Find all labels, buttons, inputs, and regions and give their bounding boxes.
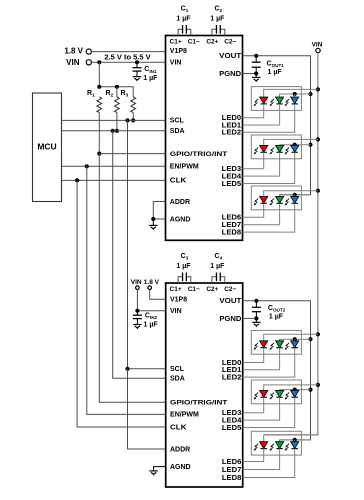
junction SCL/U2 ADDR	[125, 367, 129, 371]
LED module box3	[251, 186, 301, 210]
junction EN branch	[85, 164, 89, 168]
LED module box6	[251, 431, 301, 455]
wire blue cathode box6 to IC	[243, 449, 295, 478]
svg-text:2.5 V to 5.5 V: 2.5 V to 5.5 V	[104, 53, 150, 62]
ground CIN1	[133, 77, 141, 82]
capacitor C2	[210, 6, 225, 36]
wire green/blue anode rail box6	[280, 440, 311, 442]
wire red cathode box2 to IC	[243, 152, 264, 168]
LED red box4	[254, 341, 268, 350]
svg-text:VOUT: VOUT	[219, 298, 242, 305]
LED module box1	[251, 87, 301, 111]
wire green cathode box6 to IC	[243, 449, 280, 470]
wire pullup rail	[99, 62, 133, 97]
wire EN/PWM MCU to U1	[62, 165, 166, 167]
svg-text:PGND: PGND	[219, 71, 241, 78]
wire GPIO bus to U2	[99, 154, 165, 403]
svg-text:LED7: LED7	[222, 467, 242, 474]
svg-text:LED6: LED6	[222, 215, 242, 222]
LED driver IC U2	[166, 283, 243, 487]
svg-text:LED5: LED5	[222, 425, 242, 432]
resistor R3	[121, 90, 136, 113]
wire VIN to CIN1	[136, 62, 138, 67]
wire VIN to CIN2	[136, 311, 138, 316]
junction VIN rail box1	[316, 87, 320, 91]
wire blue cathode box1 to IC	[243, 104, 295, 132]
svg-text:VIN: VIN	[170, 308, 182, 315]
junction rail R2	[115, 85, 119, 89]
svg-text:1 µF: 1 µF	[144, 322, 159, 329]
svg-text:AGND: AGND	[170, 216, 191, 223]
wire VIN to U2 VIN	[137, 290, 165, 311]
svg-text:LED2: LED2	[222, 375, 242, 382]
capacitor C1	[176, 6, 191, 36]
svg-text:LED4: LED4	[222, 174, 242, 181]
LED blue box3	[285, 196, 299, 205]
wire R1 to GPIO	[98, 113, 100, 154]
svg-text:VIN: VIN	[66, 58, 80, 67]
wire EN bus to U2	[87, 166, 166, 414]
wire blue cathode box4 to IC	[243, 348, 295, 377]
wire SDA MCU to U1	[62, 130, 166, 132]
svg-text:LED7: LED7	[222, 222, 242, 229]
wire blue anode box4	[294, 339, 296, 341]
wire CLK bus to U2	[77, 180, 166, 427]
svg-text:LED3: LED3	[222, 166, 242, 173]
wire green/blue anode rail box2	[280, 144, 311, 147]
wire blue cathode box3 to IC	[243, 203, 295, 232]
capacitor COUT2	[252, 301, 286, 321]
svg-text:SCL: SCL	[170, 366, 185, 373]
junction VOUT rail box5	[308, 388, 312, 392]
wire GPIO to U1	[99, 153, 165, 155]
svg-text:1 µF: 1 µF	[176, 263, 191, 270]
svg-text:C1+: C1+	[170, 39, 182, 46]
svg-text:LED0: LED0	[222, 360, 242, 367]
wire U2 AGND to ground	[154, 467, 166, 471]
junction R3/SCL	[131, 118, 135, 122]
junction blue anode box2	[293, 143, 297, 147]
svg-text:V1P8: V1P8	[170, 48, 187, 55]
node VIN terminal U2	[131, 279, 142, 290]
wire U1 AGND	[153, 218, 165, 220]
svg-text:C2−: C2−	[224, 39, 236, 46]
junction VOUT COUT1	[254, 54, 258, 58]
wire green/blue anode rail box4	[280, 339, 311, 341]
svg-text:LED8: LED8	[222, 230, 242, 237]
svg-text:VOUT: VOUT	[219, 53, 242, 60]
wire red anode rail box5	[264, 385, 318, 391]
junction VIN rail box4	[316, 332, 320, 336]
junction VOUT COUT2	[254, 299, 258, 303]
svg-text:CLK: CLK	[170, 424, 187, 431]
LED green box4	[270, 341, 284, 350]
wire VIN to U1 VIN	[91, 61, 165, 63]
wire green/blue anode rail box5	[280, 389, 311, 392]
svg-text:CLK: CLK	[170, 178, 187, 185]
LED green box6	[270, 442, 284, 451]
junction PGND COUT2	[254, 316, 258, 320]
svg-text:LED0: LED0	[222, 115, 242, 122]
junction VIN rail box3	[316, 189, 320, 193]
LED red box6	[254, 442, 268, 451]
junction VIN/CIN1	[135, 60, 139, 64]
LED green box5	[270, 390, 284, 399]
LED module box4	[251, 330, 301, 354]
capacitor CIN2	[133, 312, 158, 328]
node 1.8V terminal U2	[144, 279, 160, 290]
ground COUT2	[252, 318, 260, 327]
svg-text:AGND: AGND	[170, 464, 191, 471]
svg-text:EN/PWM: EN/PWM	[170, 412, 199, 419]
capacitor COUT1	[252, 56, 285, 76]
svg-text:1 µF: 1 µF	[269, 313, 284, 320]
wire U2 VOUT	[243, 301, 311, 440]
svg-text:C1−: C1−	[188, 286, 200, 293]
svg-text:1 µF: 1 µF	[176, 15, 191, 22]
wire blue cathode box5 to IC	[243, 397, 295, 427]
svg-text:LED3: LED3	[222, 410, 242, 417]
svg-text:C2−: C2−	[224, 286, 236, 293]
wire green cathode box5 to IC	[243, 397, 280, 420]
LED blue box4	[285, 341, 299, 350]
resistor R1	[87, 90, 102, 113]
wire red anode rail box4	[264, 334, 318, 341]
svg-text:LED2: LED2	[222, 130, 242, 137]
LED module box5	[251, 380, 301, 404]
wire green cathode box4 to IC	[243, 348, 280, 370]
svg-text:SCL: SCL	[170, 118, 185, 125]
wire SCL MCU to U1	[62, 119, 166, 121]
wire blue anode box3	[294, 195, 296, 197]
svg-text:C1−: C1−	[188, 39, 200, 46]
junction VIN/CIN2	[135, 309, 139, 313]
svg-text:GPIO/TRIG/INT: GPIO/TRIG/INT	[170, 151, 227, 158]
svg-text:VIN: VIN	[312, 41, 323, 48]
LED red box2	[254, 145, 268, 154]
wire blue anode box5	[294, 389, 296, 392]
svg-text:VIN: VIN	[131, 279, 142, 286]
wire red anode rail box1	[264, 89, 318, 97]
svg-text:C1+: C1+	[170, 286, 182, 293]
junction R1/GPIO	[97, 152, 101, 156]
wire U1 PGND	[243, 73, 257, 75]
wire green cathode box2 to IC	[243, 152, 280, 176]
svg-text:1 µF: 1 µF	[268, 69, 283, 76]
svg-text:LED6: LED6	[222, 459, 242, 466]
wire SCL bus to U2 ADDR	[128, 369, 166, 449]
junction PGND COUT1	[254, 71, 258, 75]
wire blue anode box2	[294, 144, 296, 147]
wire red anode rail box6	[264, 435, 318, 442]
svg-text:EN/PWM: EN/PWM	[170, 164, 199, 171]
svg-text:1.8 V: 1.8 V	[64, 46, 83, 55]
junction ADDR/AGND	[151, 217, 155, 221]
svg-text:1 µF: 1 µF	[143, 75, 158, 82]
wire AGND to ground	[152, 219, 154, 225]
svg-text:1 µF: 1 µF	[210, 263, 225, 270]
wire R2 to SDA	[116, 113, 118, 131]
resistor R2	[106, 90, 120, 113]
svg-text:LED4: LED4	[222, 418, 242, 425]
wire U1 VOUT	[243, 56, 311, 195]
wire blue cathode box2 to IC	[243, 152, 295, 183]
wire red cathode box6 to IC	[243, 449, 264, 462]
LED red box3	[254, 196, 268, 205]
ground U1 AGND	[149, 225, 157, 230]
junction VOUT rail box2	[308, 143, 312, 147]
svg-text:PGND: PGND	[219, 316, 241, 323]
ground COUT1	[252, 74, 260, 83]
ground U2 AGND	[149, 471, 157, 476]
LED red box5	[254, 390, 268, 399]
wire CLK MCU to U1	[62, 179, 166, 181]
junction blue anode box6	[293, 438, 297, 442]
svg-text:SDA: SDA	[170, 128, 185, 135]
wire red anode rail box2	[264, 139, 318, 145]
capacitor C4	[210, 253, 225, 283]
junction SDA branch	[111, 129, 115, 133]
svg-text:LED1: LED1	[222, 122, 242, 129]
junction blue anode box3	[293, 193, 297, 197]
svg-text:ADDR: ADDR	[170, 446, 190, 453]
wire red cathode box4 to IC	[243, 348, 264, 363]
junction blue anode box4	[293, 337, 297, 341]
LED blue box6	[285, 442, 299, 451]
junction SCL branch	[125, 118, 129, 122]
junction blue anode box5	[293, 388, 297, 392]
svg-text:1.8 V: 1.8 V	[144, 279, 160, 286]
capacitor CIN1	[133, 66, 159, 82]
wire green/blue anode rail box1	[280, 94, 311, 97]
svg-text:SDA: SDA	[170, 376, 185, 383]
svg-text:LED5: LED5	[222, 181, 242, 188]
ground CIN2	[133, 325, 141, 330]
wire blue anode box6	[294, 440, 296, 442]
svg-text:1 µF: 1 µF	[210, 15, 225, 22]
junction VIN/pullup rail	[97, 60, 101, 64]
svg-text:V1P8: V1P8	[170, 297, 187, 304]
wire U1 ADDR to AGND	[153, 202, 165, 220]
LED blue box1	[285, 97, 299, 106]
junction VOUT rail box1	[308, 92, 312, 96]
svg-text:VIN: VIN	[170, 60, 182, 67]
wire CIN2 to ground	[136, 319, 138, 325]
junction R2/SDA	[115, 129, 119, 133]
junction VOUT rail box4	[308, 337, 312, 341]
svg-text:LED8: LED8	[222, 475, 242, 482]
wire R3 to SCL	[132, 113, 134, 121]
wire SDA bus to U2	[113, 131, 166, 378]
wire U2 PGND	[243, 317, 257, 319]
junction VIN rail box2	[316, 137, 320, 141]
wire green/blue anode rail box3	[280, 195, 311, 197]
LED driver IC U1	[166, 36, 243, 241]
svg-text:MCU: MCU	[37, 142, 56, 152]
svg-text:GPIO/TRIG/INT: GPIO/TRIG/INT	[170, 400, 227, 407]
wire 1.8V to U2 V1P8	[150, 290, 166, 299]
wire VIN rail	[264, 53, 318, 435]
svg-text:C2+: C2+	[206, 286, 218, 293]
svg-text:LED1: LED1	[222, 367, 242, 374]
junction rail R1	[97, 85, 101, 89]
junction blue anode box1	[293, 92, 297, 96]
wire red anode rail box3	[264, 191, 318, 197]
wire red cathode box5 to IC	[243, 397, 264, 412]
LED green box3	[270, 196, 284, 205]
wire blue anode box1	[294, 94, 296, 97]
wire SCL bus to U2	[128, 120, 166, 368]
wire red cathode box3 to IC	[243, 203, 264, 217]
node VIN terminal	[66, 58, 91, 67]
LED green box1	[270, 97, 284, 106]
LED green box2	[270, 145, 284, 154]
wire red cathode box1 to IC	[243, 104, 264, 118]
MCU	[33, 93, 62, 202]
LED module box2	[251, 135, 301, 159]
LED blue box5	[285, 390, 299, 399]
wire CIN1 to ground	[136, 71, 138, 76]
wire green cathode box3 to IC	[243, 203, 280, 224]
wire green cathode box1 to IC	[243, 104, 280, 125]
junction CLK branch	[75, 178, 79, 182]
capacitor C3	[176, 253, 191, 283]
node 1.8V terminal	[64, 46, 91, 55]
wire 1.8V to U1 V1P8	[91, 51, 165, 53]
LED blue box2	[285, 145, 299, 154]
junction VIN rail box5	[316, 383, 320, 387]
svg-text:C2+: C2+	[206, 39, 218, 46]
node VIN terminal right	[312, 41, 323, 52]
LED red box1	[254, 97, 268, 106]
svg-text:ADDR: ADDR	[170, 199, 190, 206]
